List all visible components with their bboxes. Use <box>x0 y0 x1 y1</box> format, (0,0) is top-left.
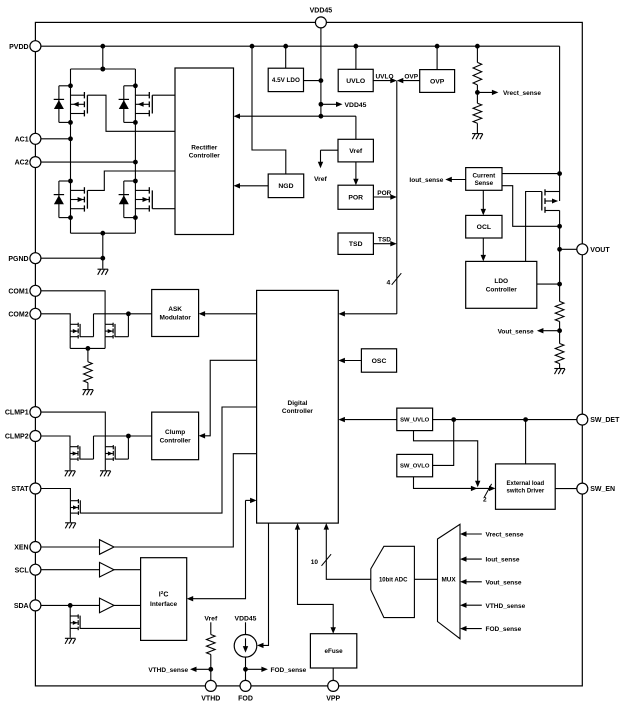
svg-text:NGD: NGD <box>278 183 293 190</box>
svg-text:POR: POR <box>377 190 391 197</box>
svg-text:External load: External load <box>507 481 545 487</box>
svg-text:SW_DET: SW_DET <box>590 417 620 424</box>
svg-text:SW_UVLO: SW_UVLO <box>400 417 430 423</box>
svg-text:VPP: VPP <box>326 696 340 703</box>
svg-text:FOD: FOD <box>238 696 253 703</box>
svg-text:switch Driver: switch Driver <box>507 489 545 495</box>
svg-text:PVDD: PVDD <box>9 44 28 51</box>
svg-text:4.5V LDO: 4.5V LDO <box>272 77 300 84</box>
svg-text:Interface: Interface <box>150 601 177 608</box>
svg-text:VTHD_sense: VTHD_sense <box>486 603 526 610</box>
svg-text:Rectifier: Rectifier <box>191 144 217 151</box>
svg-text:SW_EN: SW_EN <box>590 486 615 493</box>
svg-text:Controller: Controller <box>160 437 192 444</box>
svg-text:Vout_sense: Vout_sense <box>486 579 522 586</box>
svg-text:COM2: COM2 <box>8 311 28 318</box>
svg-text:eFuse: eFuse <box>324 648 343 655</box>
svg-text:VDD45: VDD45 <box>235 616 257 623</box>
svg-text:VOUT: VOUT <box>590 247 610 254</box>
svg-text:VDD45: VDD45 <box>345 102 367 109</box>
svg-text:PGND: PGND <box>8 256 28 263</box>
svg-text:MUX: MUX <box>441 577 456 584</box>
svg-text:Vrect_sense: Vrect_sense <box>486 532 524 539</box>
svg-text:4: 4 <box>387 279 391 286</box>
svg-text:Modulator: Modulator <box>159 314 191 321</box>
svg-text:SW_OVLO: SW_OVLO <box>400 464 430 470</box>
svg-text:OVP: OVP <box>404 74 418 81</box>
svg-text:XEN: XEN <box>14 545 28 552</box>
svg-text:TSD: TSD <box>378 237 391 244</box>
svg-text:Vref: Vref <box>314 176 328 183</box>
svg-text:VTHD: VTHD <box>201 696 220 703</box>
svg-text:AC2: AC2 <box>15 160 29 167</box>
svg-text:Vout_sense: Vout_sense <box>498 329 534 336</box>
svg-text:COM1: COM1 <box>8 288 28 295</box>
svg-text:VTHD_sense: VTHD_sense <box>148 667 188 674</box>
svg-text:CLMP1: CLMP1 <box>5 410 29 417</box>
svg-text:Vref: Vref <box>204 616 218 623</box>
svg-text:Sense: Sense <box>475 180 494 187</box>
svg-text:ASK: ASK <box>168 306 182 313</box>
svg-text:TSD: TSD <box>349 241 363 248</box>
svg-text:10bit ADC: 10bit ADC <box>379 578 408 584</box>
svg-text:CLMP2: CLMP2 <box>5 434 29 441</box>
svg-text:I2C: I2C <box>159 590 169 599</box>
svg-text:Iout_sense: Iout_sense <box>486 557 520 564</box>
svg-text:VDD45: VDD45 <box>310 8 333 15</box>
svg-text:Controller: Controller <box>189 153 221 160</box>
svg-text:AC1: AC1 <box>15 136 29 143</box>
svg-text:OVP: OVP <box>430 78 445 85</box>
svg-text:OCL: OCL <box>477 224 491 231</box>
svg-text:SDA: SDA <box>14 603 29 610</box>
svg-text:UVLO: UVLO <box>375 74 393 81</box>
svg-text:UVLO: UVLO <box>346 78 365 85</box>
svg-text:Controller: Controller <box>486 286 518 293</box>
svg-text:Vref: Vref <box>349 148 363 155</box>
svg-text:10: 10 <box>311 559 319 566</box>
svg-text:Iout_sense: Iout_sense <box>409 177 443 184</box>
svg-text:SCL: SCL <box>15 567 30 574</box>
svg-text:2: 2 <box>483 496 487 503</box>
svg-text:Digital: Digital <box>288 400 308 407</box>
svg-text:Controller: Controller <box>282 408 314 415</box>
svg-text:Current: Current <box>472 172 496 179</box>
svg-text:Vrect_sense: Vrect_sense <box>503 90 541 97</box>
svg-text:FOD_sense: FOD_sense <box>486 626 522 633</box>
svg-text:OSC: OSC <box>372 358 387 365</box>
svg-text:Clump: Clump <box>165 429 185 436</box>
svg-text:FOD_sense: FOD_sense <box>271 667 307 674</box>
svg-text:LDO: LDO <box>494 278 508 285</box>
svg-text:POR: POR <box>348 195 363 202</box>
svg-text:STAT: STAT <box>11 486 29 493</box>
